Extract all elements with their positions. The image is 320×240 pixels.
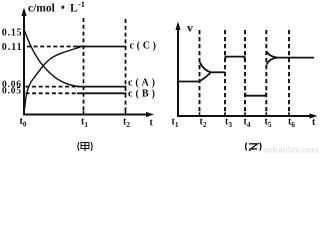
svg-text:0.11: 0.11: [2, 42, 22, 53]
svg-text:c(B): c(B): [128, 89, 155, 100]
svg-text:v: v: [187, 21, 193, 35]
svg-text:aoKaoShi.com: aoKaoShi.com: [263, 146, 319, 155]
svg-text:c(A): c(A): [128, 78, 155, 89]
svg-text:0.05: 0.05: [2, 87, 21, 97]
svg-text:0.15: 0.15: [2, 27, 22, 38]
svg-text:c(C): c(C): [130, 41, 157, 52]
